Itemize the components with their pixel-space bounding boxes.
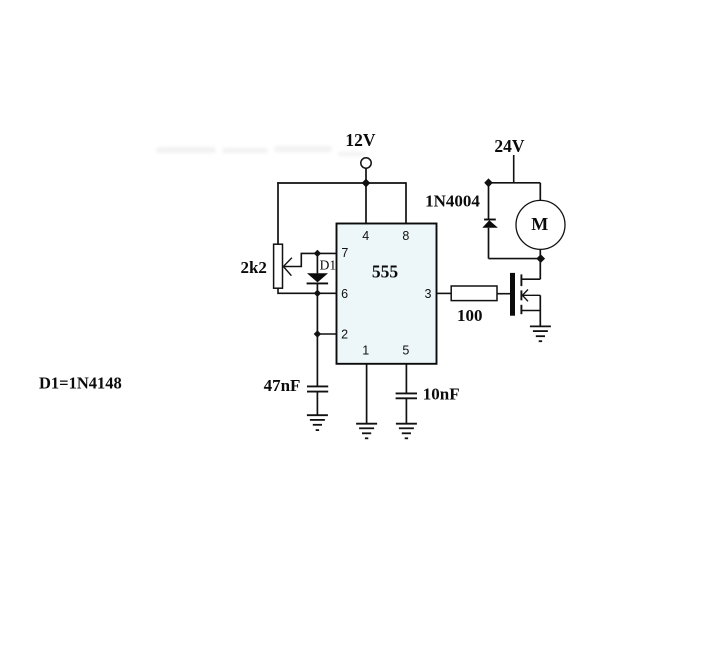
- svg-text:1N4004: 1N4004: [425, 192, 480, 211]
- transistor Q1 channel segments: [520, 274, 522, 314]
- motor M1 body: [516, 200, 565, 249]
- ground pin1: [356, 424, 377, 439]
- capacitor C1 47nF plates: [307, 386, 328, 391]
- wire wiper to pin 7: [283, 253, 336, 266]
- wire 24V top bar: [489, 182, 541, 184]
- svg-text:6: 6: [341, 287, 348, 301]
- svg-text:555: 555: [372, 262, 399, 282]
- wire pin 3 to resistor R2: [437, 292, 452, 294]
- IC U1 555 timer body: [337, 224, 437, 364]
- svg-text:1: 1: [362, 344, 369, 358]
- svg-text:D1=1N4148: D1=1N4148: [39, 374, 122, 393]
- wire motor bottom bar to diode D2: [489, 258, 541, 260]
- ground C1: [307, 415, 328, 430]
- junction node pin7 / D1 anode: [314, 250, 321, 257]
- ground Q1 source: [530, 326, 551, 341]
- svg-text:12V: 12V: [345, 130, 376, 150]
- transistor Q1 source stub with arrow: [522, 290, 540, 302]
- diode D2 cathode lead: [488, 183, 490, 220]
- ground C2: [396, 424, 417, 439]
- wire pin 5 to capacitor C2: [405, 364, 407, 394]
- wire pin6 node down to pin2 node: [316, 293, 318, 334]
- diode D1 cathode lead: [316, 283, 318, 293]
- wire C2 to ground: [405, 398, 407, 423]
- wire R2 to MOSFET gate: [497, 293, 510, 295]
- junction node motor minus / drain: [536, 254, 545, 263]
- transistor Q1 gate bar: [510, 273, 515, 316]
- svg-text:100: 100: [457, 306, 483, 325]
- wire pin 8: [405, 182, 407, 224]
- svg-text:2: 2: [341, 327, 348, 341]
- svg-text:3: 3: [425, 287, 432, 301]
- svg-text:7: 7: [341, 246, 348, 260]
- svg-text:D1: D1: [320, 257, 337, 272]
- diode D2 1N4004 anode lead: [488, 228, 490, 259]
- terminal 12V: [361, 158, 371, 168]
- wire pin 2: [317, 333, 336, 335]
- junction top rail 12V node: [362, 179, 371, 188]
- wire 24V supply drop: [513, 155, 515, 183]
- wire top rail: [277, 182, 406, 184]
- potentiometer R1 body: [274, 244, 283, 288]
- transistor Q1 drain stub: [521, 278, 540, 280]
- wire C1 to ground: [316, 392, 318, 416]
- junction node pin2: [314, 330, 321, 337]
- diode D1 triangle: [307, 273, 328, 282]
- wire pin 1 to ground: [366, 364, 368, 424]
- wire source to ground: [539, 295, 541, 326]
- svg-text:10nF: 10nF: [423, 384, 460, 403]
- diode D1 cathode bar: [307, 282, 329, 284]
- svg-text:M: M: [531, 214, 548, 234]
- svg-text:4: 4: [362, 229, 369, 243]
- diode D1 anode lead: [316, 253, 318, 273]
- junction node pin6 / D1 cathode: [314, 290, 321, 297]
- svg-text:8: 8: [402, 229, 409, 243]
- wire pin2 node down to capacitor C1: [316, 334, 318, 386]
- wire 12V terminal to top rail: [365, 168, 367, 183]
- resistor R2 body: [451, 286, 497, 301]
- junction node 24V rail / D2 cathode: [484, 178, 493, 187]
- wire pot bottom to pin 6: [278, 288, 337, 294]
- wire motor bottom lead: [539, 249, 541, 258]
- diode D2 cathode bar: [484, 219, 496, 221]
- svg-text:2k2: 2k2: [240, 258, 266, 277]
- wire pin 4: [365, 183, 367, 224]
- diode D2 triangle: [482, 220, 498, 228]
- svg-text:47nF: 47nF: [264, 376, 301, 395]
- wire drain up to motor node: [539, 259, 541, 280]
- potentiometer wiper arrow: [283, 258, 292, 276]
- wire rail to potentiometer top: [277, 182, 279, 244]
- svg-text:24V: 24V: [494, 136, 525, 156]
- svg-text:5: 5: [402, 344, 409, 358]
- capacitor C2 10nF plates: [396, 393, 417, 398]
- wire motor top lead: [539, 183, 541, 201]
- transistor Q1 body stub: [521, 310, 540, 312]
